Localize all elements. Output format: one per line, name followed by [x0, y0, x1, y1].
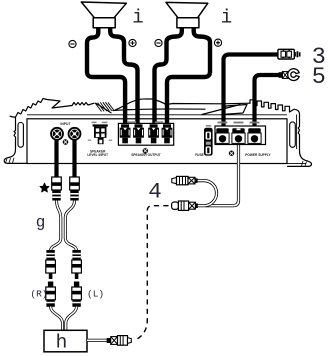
wire speaker1 minus to terminal 1 — [87, 27, 125, 126]
plus symbol speaker2 — [214, 39, 221, 46]
speaker output terminals 1-4 — [120, 124, 173, 143]
amp front panel — [27, 119, 287, 164]
amp left mounting slot — [18, 123, 23, 148]
tiny label above fuse — [206, 125, 211, 127]
fuse holder — [204, 128, 213, 156]
RCA input jack R — [68, 127, 82, 141]
RCA plug body R — [70, 177, 80, 201]
tiny labels around speaker level input — [92, 122, 97, 124]
svg-text:INPUT: INPUT — [60, 122, 71, 126]
wire ground (connector 5) to GND terminal — [255, 75, 279, 131]
wire speaker1 plus to terminal 2 — [110, 27, 137, 126]
svg-text:g: g — [36, 213, 46, 231]
speaker SP2 cone — [166, 2, 208, 27]
screw under input jacks — [63, 139, 69, 145]
svg-text:h: h — [56, 332, 68, 354]
screw under power block — [229, 151, 234, 156]
speaker output terminal block — [118, 123, 173, 145]
RCA plug into amp L (pin) — [54, 140, 58, 178]
svg-text:LEVEL INPUT: LEVEL INPUT — [87, 153, 108, 157]
tiny labels above power terminals — [218, 122, 228, 124]
amp right mounting slot — [290, 122, 296, 147]
RCA plug into amp R (pin) — [72, 140, 76, 178]
head unit remote spade connector — [107, 336, 132, 346]
connector 4 U-loop wire (double line) — [197, 181, 217, 206]
wire speaker2 plus to terminal 4 — [167, 27, 210, 126]
wire from head unit (double line) — [87, 339, 107, 342]
connector 4 female bullet (bottom) — [172, 201, 198, 210]
svg-text:SPEAKER OUTPUT: SPEAKER OUTPUT — [131, 153, 160, 157]
svg-text:POWER SUPPLY: POWER SUPPLY — [245, 153, 271, 157]
head unit box h — [44, 330, 87, 352]
RCA extension male plug L (pointing down) — [46, 250, 56, 279]
svg-text:FUSE: FUSE — [195, 153, 204, 157]
screw under speaker output — [143, 148, 148, 153]
amp right foot hatch — [302, 161, 307, 166]
plus symbol speaker1 — [129, 39, 136, 46]
svg-text:(L): (L) — [87, 288, 104, 299]
amp right end cap — [288, 114, 312, 166]
dashed remote wire to head unit — [134, 206, 169, 339]
connector 4 male spade (top) — [172, 176, 198, 184]
remote lead from middle power terminal (double line) — [205, 144, 239, 206]
connector 3 (fuse holder on battery lead) — [278, 49, 301, 59]
connector 5 (ring ground terminal) — [279, 69, 300, 81]
star marker — [40, 183, 49, 192]
power supply terminal block — [215, 126, 266, 145]
svg-text:i: i — [132, 7, 143, 29]
speaker level input connector — [93, 124, 108, 144]
RCA input jack L — [50, 127, 64, 141]
RCA cable pair lower (double lines) — [51, 307, 77, 331]
minus symbol speaker2 — [155, 39, 162, 46]
wire battery (connector 3) to +12V terminal — [224, 55, 279, 132]
RCA extension female jack R (pointing up) — [72, 282, 82, 307]
power terminals — [216, 128, 261, 143]
tiny BRIDGED labels above speaker terminals — [128, 121, 137, 123]
svg-text:(R): (R) — [30, 288, 47, 299]
svg-text:4: 4 — [148, 178, 162, 204]
RCA extension male plug R (pointing down) — [72, 250, 82, 279]
speaker SP1 cone — [81, 2, 126, 28]
svg-text:i: i — [221, 7, 232, 29]
amp top face edge line — [27, 114, 287, 116]
RCA cable pair upper (double lines) — [51, 201, 77, 252]
RCA extension female jack L (pointing up) — [46, 282, 56, 307]
heatsink hatch shading — [95, 102, 114, 111]
wire speaker2 minus to terminal 3 — [155, 27, 182, 126]
amp left end cap — [4, 117, 27, 163]
amp left foot hatch — [6, 158, 15, 163]
RCA plug body L — [52, 177, 62, 201]
amplifier top heatsink silhouette — [10, 99, 300, 118]
minus symbol speaker1 — [69, 40, 76, 47]
svg-text:5: 5 — [312, 64, 326, 91]
